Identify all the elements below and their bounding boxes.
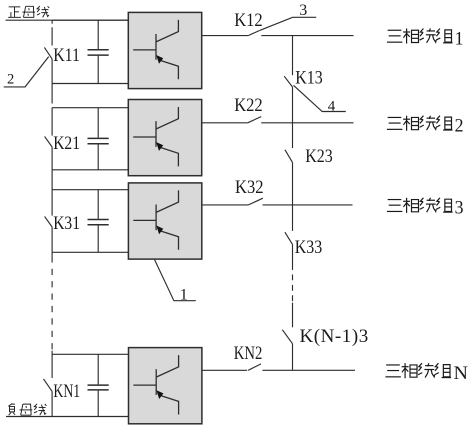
callout leader 3 [260,17,316,30]
svg-text:3: 3 [455,198,464,219]
svg-text:K32: K32 [235,178,264,198]
svg-text:KN2: KN2 [234,344,262,364]
wire: moduleN top branch [52,353,128,355]
wire: module2 top branch [52,107,128,109]
svg-text:K21: K21 [53,134,80,154]
svg-text:3: 3 [299,2,307,19]
label 正母线 (positive bus) [8,6,49,17]
svg-text:KN1: KN1 [53,382,80,402]
IGBT module U1 [128,12,201,88]
capacitor C1 plates [88,49,109,51]
wire: module2 output [202,122,248,124]
wire: module1 top branch [52,19,128,21]
IGBT module UN [129,348,202,424]
wire: positive bus top horizontal [6,19,129,21]
label 三相绕组1 (winding 1) [387,28,464,49]
wire: module3 top branch [52,189,128,191]
wire to winding 2 [261,122,353,124]
wire to winding N [262,369,355,371]
capacitor CN leads [97,354,99,384]
switch K31 blade [45,216,53,227]
wire [51,391,53,416]
wire [292,344,294,371]
svg-text:K12: K12 [234,11,263,31]
switch K23 blade [285,150,293,163]
capacitor C3 leads [97,190,99,219]
switch K21 blade [45,136,53,147]
IGBT module U3 [128,183,201,259]
svg-text:2: 2 [7,71,14,87]
label 三相绕组3 (winding 3) [387,198,464,219]
wire [51,351,53,378]
svg-text:1: 1 [180,287,188,304]
svg-text:4: 4 [328,99,336,115]
wire [292,36,294,76]
wire [292,303,294,328]
svg-text:K(N-1)3: K(N-1)3 [300,326,369,347]
wire [51,147,53,216]
capacitor C1 leads [97,20,99,49]
capacitor C3 plates [88,219,109,221]
wire: module2 bottom branch [52,169,128,171]
wire dashed continuation right bus [292,270,294,303]
wire: negative bus bottom horizontal [6,416,128,418]
svg-text:K11: K11 [53,46,80,66]
wire to winding 1 [261,35,353,37]
svg-text:K23: K23 [305,147,333,167]
wire: left bus vertical segments [51,20,53,24]
switch KN2 blade [248,364,261,370]
capacitor C2 plates [88,137,109,139]
callout leader 4 [294,85,346,111]
wire: moduleN output [201,369,248,371]
svg-text:2: 2 [455,116,464,137]
svg-text:K31: K31 [53,214,80,234]
callout leader 1 [155,260,196,301]
wire: module1 output [202,35,248,37]
capacitor C2 leads [97,108,99,138]
svg-text:N: N [454,363,469,384]
switch K12 blade [248,30,260,35]
wire [51,108,53,136]
callout leader 2 [4,57,49,87]
switch KN1 blade [44,379,53,392]
wire to winding 3 [263,204,353,206]
svg-text:1: 1 [455,28,464,49]
switch K(N-1)3 blade [282,330,292,344]
capacitor CN plates [88,384,109,386]
switch K22 blade [248,117,262,123]
switch K11 blade [44,47,52,59]
switch K13 blade [284,76,292,87]
wire [292,162,294,231]
label 三相绕组N (winding N) [385,363,468,384]
wire: module3 bottom branch [52,251,128,253]
svg-text:K33: K33 [295,238,323,258]
switch K33 blade [285,232,293,244]
switch K32 blade [248,198,263,205]
wire [292,87,294,148]
label 负母线 (negative bus) [8,404,46,416]
wire [51,227,53,263]
wire dashed continuation left bus [51,263,53,351]
wire [292,244,294,270]
wire [51,59,53,104]
IGBT module U2 [128,100,201,176]
wire: module1 bottom branch [52,83,128,85]
label 三相绕组2 (winding 2) [387,116,464,137]
svg-text:K22: K22 [234,96,263,116]
wire: module3 output [202,204,249,206]
svg-text:K13: K13 [295,69,323,89]
